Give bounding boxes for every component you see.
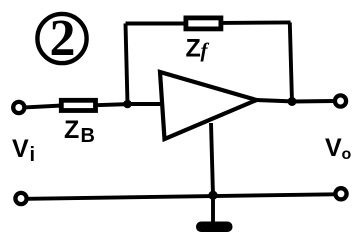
wire ZB to input node — [96, 104, 129, 105]
node: output junction dot — [288, 97, 297, 106]
svg-text:V: V — [12, 135, 29, 163]
wire feedback rail left segment — [126, 22, 186, 26]
wire op-amp ground pin down — [211, 123, 213, 195]
wire feedback rail down to output node — [290, 22, 292, 102]
resistor Zf — [186, 18, 221, 29]
wire op-amp output to output node — [256, 100, 295, 102]
resistor ZB — [61, 100, 95, 110]
wire ground stem — [211, 196, 215, 227]
wire output node to output terminal — [292, 99, 334, 103]
output terminal circle — [335, 95, 346, 106]
svg-text:i: i — [30, 144, 36, 166]
svg-text:o: o — [342, 146, 352, 163]
label Zf — [186, 35, 210, 63]
op-amp U1 triangle — [160, 72, 257, 139]
bottom terminal circle right — [335, 188, 346, 199]
ground symbol — [196, 222, 233, 233]
svg-text:Z: Z — [64, 116, 79, 144]
svg-text:2: 2 — [50, 10, 76, 67]
label Vi — [12, 135, 35, 166]
label Vo — [325, 134, 352, 163]
node: input junction dot — [123, 100, 132, 109]
wire input terminal to ZB — [25, 106, 63, 108]
bottom terminal circle left — [15, 193, 26, 204]
wire feedback rail right segment — [222, 20, 291, 24]
node: ground junction dot — [208, 191, 217, 200]
input terminal circle — [13, 102, 24, 113]
wire bottom rail — [27, 194, 335, 199]
svg-text:V: V — [325, 134, 342, 162]
wire input node to op-amp input — [128, 102, 163, 106]
svg-text:Z: Z — [186, 35, 201, 63]
label ZB — [64, 116, 95, 147]
svg-text:B: B — [81, 125, 95, 147]
figure number badge (2) — [37, 10, 86, 67]
wire input node up to feedback rail — [126, 24, 128, 105]
